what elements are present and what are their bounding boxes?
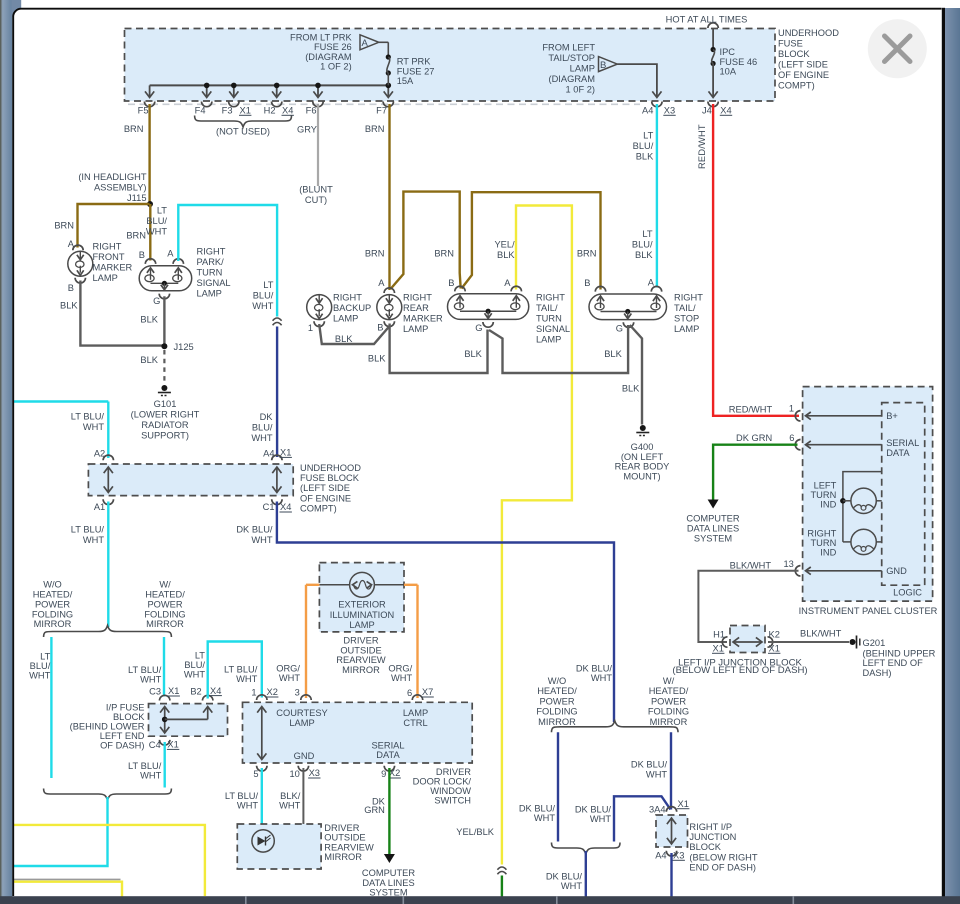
svg-text:BLOCK: BLOCK [778, 49, 810, 59]
svg-text:RED/WHT: RED/WHT [729, 405, 773, 415]
svg-text:A: A [504, 278, 511, 288]
svg-text:GND: GND [886, 566, 907, 576]
svg-text:3: 3 [295, 688, 300, 698]
svg-text:B: B [68, 283, 74, 293]
svg-text:BLK: BLK [604, 349, 622, 359]
svg-text:BRN: BRN [434, 249, 454, 259]
svg-text:WHT: WHT [561, 881, 582, 891]
svg-text:DRIVER: DRIVER [324, 823, 359, 833]
svg-text:5: 5 [253, 769, 258, 779]
svg-text:COMPUTER: COMPUTER [686, 514, 739, 524]
svg-text:RIGHT: RIGHT [403, 293, 432, 303]
svg-text:DATA LINES: DATA LINES [362, 878, 414, 888]
svg-text:DRIVER: DRIVER [343, 636, 378, 646]
svg-text:RIGHT: RIGHT [197, 247, 226, 257]
svg-text:RT PRK: RT PRK [397, 57, 432, 67]
svg-text:BLK/WHT: BLK/WHT [800, 629, 842, 639]
svg-text:1 OF 2): 1 OF 2) [320, 62, 352, 72]
svg-text:3A4: 3A4 [649, 805, 666, 815]
svg-text:(LOWER RIGHT: (LOWER RIGHT [131, 410, 200, 420]
svg-text:LT: LT [40, 652, 50, 662]
svg-text:GRY: GRY [297, 125, 317, 135]
svg-text:REARVIEW: REARVIEW [324, 842, 374, 852]
svg-text:LAMP: LAMP [289, 718, 314, 728]
svg-text:W/O: W/O [548, 676, 567, 686]
svg-text:BLK: BLK [636, 152, 654, 162]
svg-text:DK BLU/: DK BLU/ [519, 804, 556, 814]
svg-text:C1: C1 [263, 502, 275, 512]
svg-text:A4: A4 [263, 448, 274, 458]
svg-text:1: 1 [308, 323, 313, 333]
svg-text:BLK: BLK [335, 334, 353, 344]
svg-text:(LEFT SIDE: (LEFT SIDE [300, 483, 350, 493]
svg-text:INSTRUMENT PANEL CLUSTER: INSTRUMENT PANEL CLUSTER [799, 606, 938, 616]
svg-text:LT BLU/: LT BLU/ [128, 761, 162, 771]
svg-text:BLOCK: BLOCK [689, 842, 721, 852]
svg-text:IND: IND [820, 500, 836, 510]
svg-text:TURN: TURN [810, 538, 836, 548]
svg-text:(DIAGRAM: (DIAGRAM [549, 74, 596, 84]
svg-text:TAIL/STOP: TAIL/STOP [548, 53, 595, 63]
svg-text:LT BLU/: LT BLU/ [71, 412, 105, 422]
svg-text:LEFT: LEFT [814, 481, 837, 491]
svg-text:HOT AT ALL TIMES: HOT AT ALL TIMES [666, 14, 748, 24]
svg-text:BLK: BLK [622, 384, 640, 394]
svg-text:DOOR LOCK/: DOOR LOCK/ [413, 777, 472, 787]
svg-text:HEATED/: HEATED/ [537, 686, 577, 696]
svg-text:SWITCH: SWITCH [434, 796, 471, 806]
svg-text:WHT: WHT [646, 769, 667, 779]
svg-text:(IN HEADLIGHT: (IN HEADLIGHT [78, 172, 147, 182]
svg-text:W/: W/ [159, 580, 171, 590]
svg-text:COURTESY: COURTESY [276, 708, 328, 718]
svg-text:X1: X1 [167, 740, 178, 750]
svg-text:WHT: WHT [83, 535, 104, 545]
svg-text:TURN: TURN [536, 314, 562, 324]
svg-text:WHT: WHT [279, 800, 300, 810]
svg-text:X2: X2 [389, 768, 400, 778]
svg-text:WHT: WHT [252, 301, 273, 311]
svg-text:J4: J4 [702, 106, 712, 116]
svg-text:FUSE 46: FUSE 46 [720, 57, 758, 67]
svg-text:10A: 10A [720, 67, 737, 77]
svg-text:LT: LT [157, 206, 167, 216]
svg-text:MIRROR: MIRROR [324, 852, 362, 862]
svg-text:UNDERHOOD: UNDERHOOD [778, 28, 839, 38]
svg-text:BLK: BLK [368, 354, 386, 364]
svg-text:FOLDING: FOLDING [536, 707, 577, 717]
svg-text:WHT: WHT [184, 670, 205, 680]
svg-text:X1: X1 [678, 799, 689, 809]
svg-text:MIRROR: MIRROR [538, 717, 576, 727]
svg-text:X1: X1 [713, 644, 724, 654]
svg-text:I/P FUSE: I/P FUSE [106, 702, 145, 712]
svg-text:X4: X4 [720, 106, 731, 116]
svg-text:G201: G201 [863, 638, 886, 648]
svg-text:15A: 15A [397, 76, 414, 86]
svg-text:OUTSIDE: OUTSIDE [324, 833, 365, 843]
svg-text:FROM LEFT: FROM LEFT [542, 43, 595, 53]
svg-text:(BLUNT: (BLUNT [299, 185, 333, 195]
svg-text:MARKER: MARKER [403, 314, 443, 324]
svg-text:DK BLU/: DK BLU/ [575, 805, 612, 815]
svg-text:BRN: BRN [124, 124, 144, 134]
svg-text:FUSE 27: FUSE 27 [397, 66, 435, 76]
svg-text:ASSEMBLY): ASSEMBLY) [94, 183, 147, 193]
svg-text:WHT: WHT [279, 673, 300, 683]
svg-text:ILLUMINATION: ILLUMINATION [330, 610, 394, 620]
svg-text:H1: H1 [713, 630, 725, 640]
svg-text:A4: A4 [642, 106, 653, 116]
svg-text:TAIL/: TAIL/ [536, 303, 558, 313]
svg-text:RIGHT I/P: RIGHT I/P [689, 822, 732, 832]
svg-text:SYSTEM: SYSTEM [694, 534, 732, 544]
svg-text:B: B [377, 323, 383, 333]
svg-text:BLK: BLK [497, 250, 515, 260]
svg-text:(LEFT SIDE: (LEFT SIDE [778, 59, 828, 69]
svg-text:BLK/WHT: BLK/WHT [730, 560, 772, 570]
svg-text:BLU/: BLU/ [30, 661, 51, 671]
svg-text:TURN: TURN [810, 490, 836, 500]
svg-text:X3: X3 [673, 851, 684, 861]
svg-text:WINDOW: WINDOW [430, 786, 471, 796]
svg-text:LAMP: LAMP [349, 620, 374, 630]
svg-text:BRN: BRN [365, 249, 385, 259]
svg-text:C3: C3 [149, 687, 161, 697]
svg-text:B: B [448, 278, 454, 288]
svg-text:X4: X4 [280, 502, 291, 512]
svg-text:LAMP: LAMP [403, 324, 428, 334]
svg-text:POWER: POWER [147, 600, 182, 610]
svg-text:JUNCTION: JUNCTION [689, 832, 736, 842]
svg-text:9: 9 [381, 769, 386, 779]
svg-text:BRN: BRN [126, 231, 146, 241]
svg-text:COMPT): COMPT) [778, 80, 815, 90]
svg-text:COMPT): COMPT) [300, 504, 337, 514]
svg-text:FOLDING: FOLDING [144, 610, 185, 620]
svg-text:MOUNT): MOUNT) [623, 471, 660, 481]
svg-text:WHT: WHT [29, 671, 50, 681]
svg-text:1 0F 2): 1 0F 2) [566, 85, 595, 95]
svg-text:X4: X4 [210, 686, 221, 696]
svg-text:B2: B2 [190, 687, 201, 697]
svg-text:(NOT USED): (NOT USED) [216, 127, 270, 137]
svg-text:FUSE: FUSE [778, 38, 803, 48]
svg-text:X3: X3 [309, 768, 320, 778]
svg-text:A1: A1 [94, 502, 105, 512]
svg-text:LT BLU/: LT BLU/ [71, 525, 105, 535]
svg-text:END OF DASH): END OF DASH) [689, 863, 756, 873]
svg-text:BLK: BLK [140, 355, 158, 365]
svg-text:RIGHT: RIGHT [674, 293, 703, 303]
svg-text:RIGHT: RIGHT [536, 293, 565, 303]
svg-text:BLU/: BLU/ [633, 141, 654, 151]
svg-text:RADIATOR: RADIATOR [141, 420, 188, 430]
svg-text:WHT: WHT [391, 673, 412, 683]
svg-text:LOGIC: LOGIC [893, 588, 922, 598]
svg-text:A4: A4 [655, 851, 666, 861]
svg-text:1: 1 [789, 404, 794, 414]
svg-text:G400: G400 [631, 442, 654, 452]
svg-text:RIGHT: RIGHT [333, 293, 362, 303]
svg-text:F4: F4 [195, 106, 206, 116]
svg-text:(BEHIND LOWER: (BEHIND LOWER [70, 721, 145, 731]
svg-text:(BEHIND UPPER: (BEHIND UPPER [863, 648, 936, 658]
svg-text:CUT): CUT) [305, 195, 327, 205]
svg-text:A: A [648, 278, 655, 288]
svg-text:DRIVER: DRIVER [436, 767, 471, 777]
svg-text:A: A [167, 249, 174, 259]
svg-text:A2: A2 [94, 448, 105, 458]
svg-text:IND: IND [820, 548, 836, 558]
svg-text:BRN: BRN [54, 221, 74, 231]
svg-text:DK GRN: DK GRN [736, 433, 772, 443]
svg-text:LAMP: LAMP [93, 273, 118, 283]
svg-text:B: B [600, 60, 606, 71]
svg-text:DATA: DATA [376, 750, 400, 760]
svg-text:BLU/: BLU/ [632, 240, 653, 250]
svg-text:WHT: WHT [146, 227, 167, 237]
svg-text:(BELOW RIGHT: (BELOW RIGHT [689, 852, 757, 862]
svg-text:FRONT: FRONT [93, 252, 125, 262]
svg-text:FROM LT PRK: FROM LT PRK [290, 32, 352, 42]
svg-text:F5: F5 [138, 106, 149, 116]
svg-text:POWER: POWER [539, 696, 574, 706]
svg-text:WHT: WHT [534, 813, 555, 823]
svg-text:6: 6 [407, 688, 412, 698]
svg-text:WHT: WHT [140, 771, 161, 781]
svg-text:X1: X1 [240, 106, 251, 116]
svg-text:F3: F3 [222, 106, 233, 116]
svg-text:BACKUP: BACKUP [333, 303, 371, 313]
svg-text:WHT: WHT [591, 673, 612, 683]
svg-text:LT: LT [642, 229, 652, 239]
svg-text:(BELOW LEFT END OF DASH): (BELOW LEFT END OF DASH) [672, 665, 807, 676]
svg-text:POWER: POWER [651, 696, 686, 706]
svg-text:BLU/: BLU/ [252, 423, 273, 433]
svg-text:UNDERHOOD: UNDERHOOD [300, 463, 361, 473]
svg-text:MARKER: MARKER [93, 263, 133, 273]
svg-text:POWER: POWER [35, 600, 70, 610]
svg-text:RED/WHT: RED/WHT [697, 124, 707, 169]
svg-text:LAMP: LAMP [570, 64, 595, 74]
svg-text:G: G [153, 296, 160, 306]
svg-text:DK BLU/: DK BLU/ [631, 760, 668, 770]
svg-text:13: 13 [783, 559, 793, 569]
svg-text:DK BLU/: DK BLU/ [236, 525, 273, 535]
svg-text:ORG/: ORG/ [276, 664, 300, 674]
svg-text:HEATED/: HEATED/ [649, 686, 689, 696]
svg-text:A: A [68, 239, 75, 249]
svg-text:LAMP: LAMP [403, 708, 428, 718]
svg-text:SERIAL: SERIAL [886, 438, 919, 448]
svg-text:STOP: STOP [674, 314, 699, 324]
svg-text:W/: W/ [663, 676, 675, 686]
svg-text:YEL/BLK: YEL/BLK [456, 827, 495, 837]
svg-text:DK BLU/: DK BLU/ [576, 664, 613, 674]
svg-text:W/O: W/O [43, 580, 62, 590]
svg-text:X1: X1 [168, 686, 179, 696]
svg-text:LT BLU/: LT BLU/ [128, 665, 162, 675]
svg-text:LAMP: LAMP [333, 314, 358, 324]
svg-text:1: 1 [251, 688, 256, 698]
svg-text:WHT: WHT [83, 422, 104, 432]
svg-text:G: G [616, 324, 623, 334]
svg-text:F7: F7 [376, 106, 387, 116]
svg-text:OF ENGINE: OF ENGINE [300, 493, 351, 503]
svg-text:MIRROR: MIRROR [342, 665, 380, 675]
svg-text:X1: X1 [280, 448, 291, 458]
svg-text:6: 6 [789, 433, 794, 443]
svg-text:F6: F6 [306, 106, 317, 116]
svg-text:SUPPORT): SUPPORT) [141, 431, 189, 441]
svg-text:BRN: BRN [577, 249, 597, 259]
svg-text:LAMP: LAMP [197, 289, 222, 299]
svg-text:SERIAL: SERIAL [371, 741, 404, 751]
svg-text:REARVIEW: REARVIEW [336, 655, 386, 665]
svg-text:WHT: WHT [590, 814, 611, 824]
svg-text:SIGNAL: SIGNAL [197, 278, 231, 288]
svg-text:BLOCK: BLOCK [113, 712, 145, 722]
svg-text:H2: H2 [264, 106, 276, 116]
svg-text:WHT: WHT [140, 675, 161, 685]
svg-text:ORG/: ORG/ [388, 664, 412, 674]
svg-text:X3: X3 [664, 106, 675, 116]
svg-text:IPC: IPC [720, 47, 736, 57]
svg-text:RIGHT: RIGHT [807, 529, 836, 539]
svg-text:OF DASH): OF DASH) [100, 740, 144, 750]
svg-text:MIRROR: MIRROR [34, 619, 72, 629]
svg-text:X7: X7 [422, 687, 433, 697]
svg-text:DK: DK [260, 412, 274, 422]
svg-text:(ON LEFT: (ON LEFT [621, 452, 664, 462]
svg-text:SIGNAL: SIGNAL [536, 324, 570, 334]
svg-text:DATA: DATA [886, 448, 910, 458]
svg-text:FUSE 26: FUSE 26 [314, 42, 352, 52]
svg-text:G: G [475, 323, 482, 333]
svg-text:MIRROR: MIRROR [650, 717, 688, 727]
svg-text:DK BLU/: DK BLU/ [546, 872, 583, 882]
svg-text:G101: G101 [154, 399, 177, 409]
svg-text:WHT: WHT [237, 800, 258, 810]
svg-text:FUSE BLOCK: FUSE BLOCK [300, 473, 360, 483]
svg-text:X1: X1 [769, 644, 780, 654]
svg-text:BLK: BLK [60, 301, 78, 311]
svg-text:LAMP: LAMP [674, 324, 699, 334]
svg-text:K2: K2 [769, 630, 780, 640]
svg-text:LT: LT [263, 280, 273, 290]
svg-text:A: A [362, 38, 369, 49]
svg-text:C4: C4 [149, 740, 161, 750]
svg-text:OF ENGINE: OF ENGINE [778, 70, 829, 80]
svg-text:TURN: TURN [197, 268, 223, 278]
svg-text:CTRL: CTRL [403, 718, 427, 728]
svg-text:A: A [378, 278, 385, 288]
svg-text:B+: B+ [886, 411, 898, 421]
svg-text:WHT: WHT [251, 535, 272, 545]
svg-text:LT BLU/: LT BLU/ [224, 665, 258, 675]
svg-text:WHT: WHT [251, 433, 272, 443]
svg-text:LEFT END: LEFT END [100, 731, 145, 741]
svg-text:BLU/: BLU/ [146, 216, 167, 226]
svg-text:DASH): DASH) [863, 668, 892, 678]
svg-text:10: 10 [289, 769, 299, 779]
svg-text:MIRROR: MIRROR [146, 619, 184, 629]
svg-text:GRN: GRN [364, 805, 385, 815]
svg-text:B: B [584, 278, 590, 288]
svg-text:TAIL/: TAIL/ [674, 303, 696, 313]
svg-text:RIGHT: RIGHT [93, 242, 122, 252]
svg-text:J115: J115 [127, 193, 146, 203]
svg-text:BLK: BLK [464, 349, 482, 359]
svg-text:X4: X4 [282, 106, 293, 116]
svg-text:BRN: BRN [365, 124, 385, 134]
svg-text:PARK/: PARK/ [197, 257, 225, 267]
svg-text:FOLDING: FOLDING [648, 707, 689, 717]
svg-text:DATA LINES: DATA LINES [687, 524, 739, 534]
svg-text:J125: J125 [174, 342, 194, 352]
svg-text:GND: GND [294, 751, 315, 761]
svg-text:REAR: REAR [403, 303, 429, 313]
svg-text:X2: X2 [267, 687, 278, 697]
svg-text:FOLDING: FOLDING [32, 610, 73, 620]
svg-text:COMPUTER: COMPUTER [362, 868, 415, 878]
svg-text:REAR BODY: REAR BODY [615, 462, 670, 472]
svg-text:EXTERIOR: EXTERIOR [338, 600, 386, 610]
svg-text:YEL/: YEL/ [494, 240, 515, 250]
svg-text:HEATED/: HEATED/ [145, 590, 185, 600]
svg-text:BLU/: BLU/ [184, 660, 205, 670]
svg-text:SYSTEM: SYSTEM [369, 887, 407, 897]
svg-text:(DIAGRAM: (DIAGRAM [305, 52, 352, 62]
svg-text:B: B [139, 250, 145, 260]
svg-text:BLU/: BLU/ [253, 291, 274, 301]
svg-text:LT: LT [643, 131, 653, 141]
svg-text:OUTSIDE: OUTSIDE [340, 645, 381, 655]
svg-text:LAMP: LAMP [536, 335, 561, 345]
svg-text:BLK: BLK [635, 250, 653, 260]
svg-text:LT: LT [195, 651, 205, 661]
svg-text:BLK: BLK [140, 315, 158, 325]
svg-text:LEFT END OF: LEFT END OF [863, 658, 924, 668]
svg-text:HEATED/: HEATED/ [33, 590, 73, 600]
svg-text:WHT: WHT [236, 674, 257, 684]
